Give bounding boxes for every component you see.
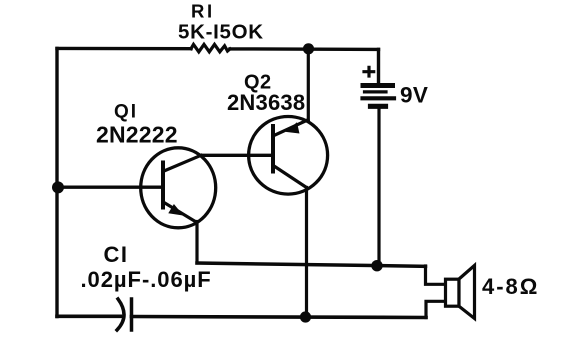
transistor Q2 base bar [271, 126, 275, 172]
transistor Q2 emitter arrow [288, 124, 299, 133]
wire battery minus lead [377, 109, 380, 266]
svg-text:RI: RI [191, 0, 215, 21]
wire top rail right of R1 [230, 47, 379, 51]
node junction battery minus / emitter rail [371, 260, 382, 271]
capacitor C1 straight plate [130, 299, 134, 330]
wire bottom rail left of C1 [57, 314, 121, 318]
wire Q2 collector down to bottom rail [305, 188, 308, 318]
svg-text:2N2222: 2N2222 [96, 122, 178, 148]
node junction top rail / Q2 emitter [303, 43, 314, 54]
transistor Q2 emitter [274, 120, 308, 136]
transistor Q1 emitter arrow [170, 205, 182, 214]
wire speaker bottom terminal [426, 301, 445, 317]
wire top rail left of R1 [57, 47, 191, 51]
wire left rail [55, 49, 58, 317]
battery plus sign [364, 67, 374, 76]
svg-text:4-8Ω: 4-8Ω [482, 274, 539, 299]
wire Q1 collector to Q2 base [201, 154, 273, 157]
svg-text:9V: 9V [400, 83, 428, 108]
battery B1 9V [363, 86, 395, 107]
node junction Q2 collector / bottom rail [300, 311, 311, 322]
transistor Q1 circle [141, 148, 216, 228]
node junction left rail / Q1 base [52, 181, 64, 193]
wire Q1 emitter down [195, 222, 198, 264]
svg-text:CI: CI [104, 242, 129, 267]
svg-text:2N3638: 2N3638 [227, 90, 305, 115]
resistor R1 zigzag [191, 44, 230, 51]
transistor Q1 base bar [161, 163, 165, 208]
svg-text:QI: QI [114, 102, 138, 123]
wire emitter rail to speaker [197, 263, 426, 266]
capacitor C1 curved plate [117, 299, 124, 330]
transistor Q2 circle [249, 117, 328, 195]
svg-text:5K-I5OK: 5K-I5OK [178, 20, 264, 43]
transistor Q1 collector [164, 155, 201, 171]
speaker SPK1 cone [459, 265, 475, 318]
wire battery plus lead [377, 49, 380, 84]
wire bottom rail right of C1 [132, 317, 427, 318]
transistor Q2 collector [274, 166, 307, 188]
wire speaker top terminal [426, 266, 446, 284]
wire Q2 emitter up to top rail [307, 49, 310, 120]
transistor Q1 emitter [164, 203, 197, 223]
speaker SPK1 driver box [446, 279, 460, 306]
svg-text:.02µF-.06µF: .02µF-.06µF [81, 267, 212, 292]
wire Q1 base [57, 185, 163, 188]
